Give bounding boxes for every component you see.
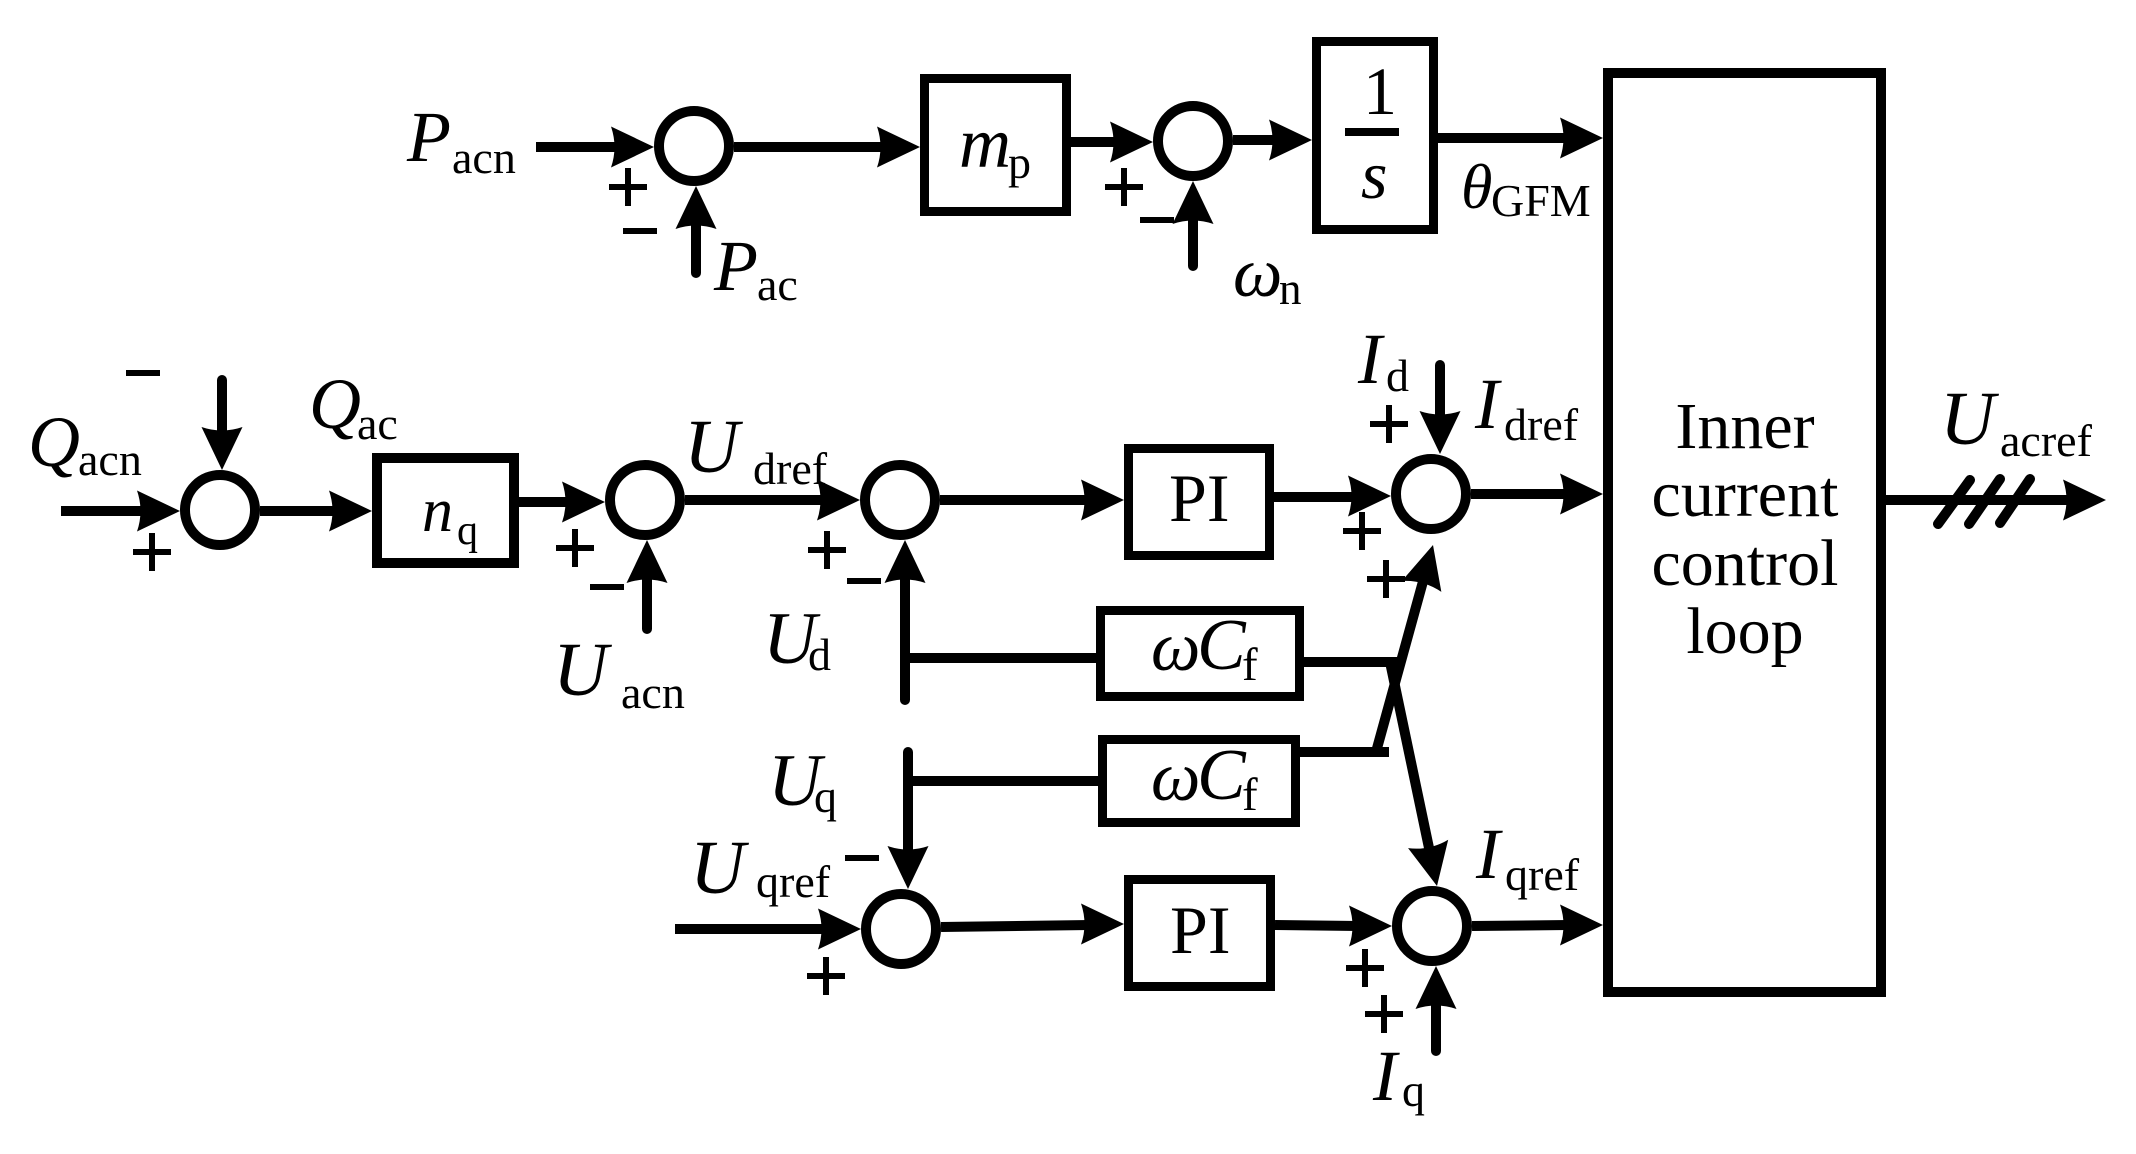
node I_q label bbox=[1372, 1036, 1425, 1116]
svg-text:ac: ac bbox=[757, 259, 798, 310]
minus sign at S7 top input bbox=[845, 855, 879, 861]
plus sign at S8 bottom input bbox=[1365, 995, 1403, 1033]
svg-text:θ: θ bbox=[1461, 151, 1492, 222]
block omega-Cf 1 (fed by U_d) bbox=[1101, 604, 1300, 697]
svg-text:acn: acn bbox=[621, 667, 685, 718]
wire n_q to summer S4 bbox=[519, 482, 605, 523]
block inner current control loop bbox=[1608, 73, 1881, 992]
wire S3 to block n_q bbox=[260, 491, 372, 532]
svg-text:C: C bbox=[1197, 734, 1247, 815]
svg-text:I: I bbox=[1372, 1036, 1400, 1116]
svg-text:m: m bbox=[959, 103, 1011, 183]
svg-text:I: I bbox=[1357, 319, 1385, 399]
plus sign at S3 left input bbox=[133, 533, 171, 571]
svg-text:ω: ω bbox=[1151, 739, 1200, 816]
wire diagonal B from omega-Cf 2 up into S6 bottom bbox=[1376, 540, 1453, 752]
svg-text:n: n bbox=[1279, 264, 1302, 314]
plus sign at S1 left input bbox=[609, 168, 647, 206]
svg-text:P: P bbox=[713, 226, 758, 306]
wire S6 to inner loop box bbox=[1471, 474, 1603, 515]
svg-text:dref: dref bbox=[1504, 399, 1579, 450]
wire omega_n vertical arrow into S2 bottom bbox=[1173, 181, 1214, 266]
svg-text:f: f bbox=[1242, 639, 1258, 691]
minus sign at S5 bottom input bbox=[847, 578, 881, 584]
three-phase slash marks on output wire bbox=[1938, 479, 2030, 524]
summer S5 (U_d sum) bbox=[865, 465, 935, 535]
node theta_GFM label bbox=[1461, 151, 1591, 226]
wire P_ac vertical arrow into S1 bottom bbox=[676, 186, 717, 273]
wire Q_acn input arrow into summer S3 bbox=[61, 491, 180, 532]
node U_qref label bbox=[690, 826, 831, 910]
summer S3 (Q sum) bbox=[185, 475, 255, 545]
svg-text:PI: PI bbox=[1169, 460, 1229, 536]
plus sign at S8 left input bbox=[1346, 949, 1384, 987]
svg-text:C: C bbox=[1197, 604, 1247, 685]
plus sign at S2 left input bbox=[1105, 168, 1143, 206]
wire S5 to PI block 1 bbox=[940, 480, 1124, 521]
svg-text:U: U bbox=[690, 826, 749, 910]
minus sign at S3 top input bbox=[126, 370, 160, 376]
svg-text:I: I bbox=[1475, 814, 1503, 894]
wire S2 to block 1/s bbox=[1233, 120, 1312, 161]
summer S1 (P sum) bbox=[659, 111, 729, 181]
wire PI 1 to summer S6 bbox=[1274, 476, 1391, 517]
wire 1/s to inner loop box (theta_GFM) bbox=[1438, 118, 1603, 159]
wire S7 to PI block 2 bbox=[941, 904, 1124, 945]
summer S6 (I_dref sum) bbox=[1396, 459, 1466, 529]
plus sign at S7 left input bbox=[807, 957, 845, 995]
svg-text:q: q bbox=[814, 771, 837, 822]
summer S7 (U_q sum) bbox=[866, 894, 936, 964]
svg-text:control: control bbox=[1652, 527, 1839, 600]
svg-text:loop: loop bbox=[1686, 595, 1803, 668]
node I_dref label bbox=[1474, 364, 1579, 450]
svg-text:acn: acn bbox=[452, 132, 516, 183]
wire U_qref input arrow into summer S7 bbox=[675, 909, 861, 950]
wire I_dref vertical arrow into S6 top bbox=[1420, 365, 1461, 454]
svg-text:n: n bbox=[422, 477, 453, 545]
wire U_d branch to omega-Cf block 1 bbox=[905, 653, 1096, 663]
svg-text:qref: qref bbox=[1505, 849, 1580, 900]
svg-text:f: f bbox=[1242, 769, 1258, 821]
svg-text:p: p bbox=[1008, 137, 1031, 188]
node U_d label bbox=[763, 598, 831, 680]
plus sign at S6 left input bbox=[1343, 512, 1381, 550]
node Q_ac label bbox=[309, 364, 398, 449]
wire U_d vertical arrow into S5 bottom bbox=[885, 540, 926, 700]
block omega-Cf 2 (fed by U_q) bbox=[1103, 734, 1296, 823]
node U_acref label bbox=[1940, 377, 2093, 466]
svg-text:d: d bbox=[1386, 350, 1409, 401]
wire S8 to inner loop box bbox=[1472, 905, 1603, 946]
plus sign at S5 left input bbox=[808, 531, 846, 569]
svg-text:1: 1 bbox=[1363, 53, 1397, 129]
block n_q bbox=[377, 458, 514, 563]
wire omega-Cf 1 output bbox=[1304, 657, 1398, 667]
summer S8 (I_q sum) bbox=[1397, 891, 1467, 961]
svg-text:Q: Q bbox=[28, 402, 80, 482]
block m_p bbox=[925, 79, 1067, 212]
block PI 1 (d-axis) bbox=[1129, 449, 1270, 556]
summer S2 (omega sum) bbox=[1158, 106, 1228, 176]
node P_acn label bbox=[406, 97, 516, 183]
svg-text:I: I bbox=[1474, 364, 1502, 444]
node I_d label bbox=[1357, 319, 1409, 401]
minus sign at S1 bottom input bbox=[623, 228, 657, 234]
node P_ac label bbox=[713, 226, 798, 310]
wire U_acn vertical arrow into S4 bottom bbox=[627, 540, 668, 629]
svg-text:acn: acn bbox=[78, 434, 142, 485]
svg-text:U: U bbox=[1940, 377, 1999, 461]
svg-text:Q: Q bbox=[309, 364, 361, 444]
svg-text:PI: PI bbox=[1170, 892, 1230, 968]
wire PI 2 to summer S8 bbox=[1275, 906, 1392, 947]
node U_dref label bbox=[684, 405, 828, 494]
minus sign at S4 bottom input bbox=[590, 584, 624, 590]
svg-text:GFM: GFM bbox=[1491, 175, 1591, 226]
node Q_acn label bbox=[28, 402, 142, 485]
svg-text:ω: ω bbox=[1151, 609, 1200, 686]
svg-text:q: q bbox=[1402, 1065, 1425, 1116]
node omega_n label bbox=[1233, 235, 1302, 314]
plus sign at S6 top input bbox=[1370, 405, 1408, 443]
wire omega-Cf 2 output bbox=[1300, 747, 1389, 757]
svg-text:q: q bbox=[457, 508, 478, 554]
minus sign at S2 bottom input bbox=[1140, 217, 1174, 223]
node U_acn label bbox=[553, 628, 685, 718]
wire I_q vertical arrow into S8 bottom bbox=[1416, 966, 1457, 1051]
svg-text:Inner: Inner bbox=[1675, 390, 1814, 463]
block PI 2 (q-axis) bbox=[1129, 880, 1271, 987]
wire vertical arrow down into S3 top bbox=[202, 380, 243, 470]
svg-text:acref: acref bbox=[2000, 415, 2093, 466]
svg-text:s: s bbox=[1361, 137, 1387, 213]
node I_qref label bbox=[1475, 814, 1580, 900]
plus sign at S4 left input bbox=[556, 529, 594, 567]
svg-text:qref: qref bbox=[756, 856, 831, 907]
svg-text:dref: dref bbox=[753, 443, 828, 494]
wire U_acref output arrow bbox=[1886, 480, 2106, 521]
svg-text:ω: ω bbox=[1233, 235, 1282, 312]
svg-text:U: U bbox=[684, 405, 743, 489]
wire U_q branch to omega-Cf block 2 bbox=[908, 776, 1098, 786]
svg-text:P: P bbox=[406, 97, 451, 177]
svg-text:d: d bbox=[808, 629, 831, 680]
wire diagonal A from omega-Cf 1 down into S8 top bbox=[1390, 662, 1457, 890]
svg-text:U: U bbox=[553, 628, 612, 712]
plus sign at S6 diagonal input bbox=[1367, 560, 1405, 598]
wire P_acn input arrow into summer S1 bbox=[536, 127, 654, 168]
summer S4 (U_acn sum) bbox=[610, 465, 680, 535]
wire S4 to summer S5 bbox=[685, 480, 860, 521]
svg-text:ac: ac bbox=[357, 398, 398, 449]
block 1/s integrator bbox=[1317, 42, 1434, 230]
wire S1 to block m_p bbox=[734, 127, 920, 168]
wire U_q vertical arrow into S7 top bbox=[888, 752, 929, 889]
svg-text:current: current bbox=[1652, 458, 1839, 531]
wire m_p to summer S2 bbox=[1071, 122, 1153, 163]
node U_q label bbox=[768, 740, 837, 822]
